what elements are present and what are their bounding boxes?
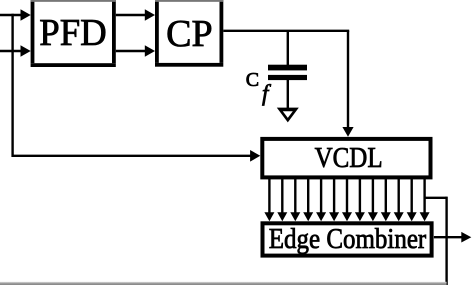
svg-text:PFD: PFD <box>39 12 107 54</box>
svg-text:Edge Combiner: Edge Combiner <box>269 223 427 255</box>
svg-text:CP: CP <box>166 13 213 55</box>
svg-text:VCDL: VCDL <box>315 142 383 174</box>
svg-text:f: f <box>262 81 272 106</box>
svg-text:C: C <box>246 69 259 91</box>
